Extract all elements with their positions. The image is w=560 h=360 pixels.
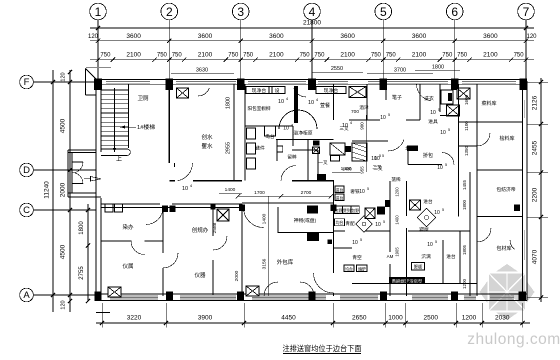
wall x234 vertical	[233, 84, 235, 181]
x-box bottom mid	[246, 286, 259, 296]
svg-text:750: 750	[371, 53, 382, 59]
grid axis circle 5	[375, 3, 392, 20]
wall y176 right part	[292, 180, 334, 182]
left bump-out wall	[67, 150, 69, 197]
svg-text:3600: 3600	[483, 33, 498, 40]
svg-text:10: 10	[278, 99, 284, 105]
black box x313	[313, 141, 320, 146]
svg-text:5: 5	[367, 187, 369, 191]
stair well	[128, 84, 130, 148]
grid axis circle 3	[232, 3, 249, 20]
dome arc partition	[279, 110, 317, 129]
door triangle left wall	[91, 177, 102, 182]
wall x477 vertical	[476, 84, 478, 296]
dim line 3600 row	[90, 40, 534, 42]
wall x213	[212, 204, 214, 237]
column	[237, 79, 245, 91]
corridor walls vertical	[333, 181, 335, 273]
svg-text:1700: 1700	[254, 190, 265, 196]
dim 1400 kitchen	[332, 171, 360, 173]
svg-text:21800: 21800	[303, 20, 321, 27]
svg-text:10: 10	[427, 242, 433, 248]
svg-text:1200: 1200	[395, 187, 400, 197]
svg-text:1100: 1100	[464, 121, 469, 131]
left dim chain 1800/2755	[87, 204, 89, 301]
svg-text:10: 10	[430, 110, 436, 116]
diamond fixture 1	[417, 208, 435, 226]
column	[520, 79, 528, 91]
wall x277	[276, 140, 278, 162]
svg-text:5: 5	[435, 240, 437, 244]
svg-text:进台: 进台	[423, 198, 433, 205]
wall x245 vertical	[244, 84, 246, 181]
grid axis circle A	[20, 288, 34, 302]
wall x308	[307, 140, 309, 181]
svg-text:955: 955	[360, 166, 365, 174]
wall y180.5 horizontal	[169, 180, 175, 182]
svg-text:5: 5	[380, 5, 387, 19]
svg-text:现净台: 现净台	[252, 87, 267, 94]
grid axis circle D	[20, 163, 34, 177]
svg-text:蒎稀: 蒎稀	[391, 176, 401, 183]
svg-text:F: F	[24, 77, 30, 88]
svg-text:1200: 1200	[462, 315, 477, 322]
grid axis line 2	[168, 20, 170, 80]
door arc chuangshui	[178, 163, 193, 181]
column	[166, 292, 173, 302]
svg-text:3630: 3630	[196, 68, 208, 74]
svg-text:120: 120	[61, 72, 67, 81]
svg-text:进台: 进台	[336, 187, 344, 192]
svg-text:10: 10	[308, 100, 314, 106]
column	[451, 79, 459, 91]
door arc mid	[388, 140, 404, 151]
svg-text:现净台: 现净台	[324, 87, 339, 94]
door arcs	[146, 208, 163, 225]
x-box bottom left	[108, 287, 121, 297]
svg-text:C: C	[23, 205, 30, 216]
column	[519, 292, 527, 302]
wall x443 lower	[442, 240, 444, 284]
wall stub x386	[385, 84, 387, 100]
svg-text:5: 5	[442, 208, 444, 212]
grid axis circle F	[20, 75, 34, 89]
svg-text:1600: 1600	[464, 94, 469, 105]
svg-text:1800: 1800	[226, 97, 232, 109]
svg-text:10: 10	[283, 126, 289, 132]
grid axis line 4	[311, 20, 313, 80]
jun tai box	[335, 219, 345, 226]
svg-text:2100: 2100	[126, 52, 141, 59]
door arc x163 gap	[163, 253, 178, 268]
door arcs kitchen bottom	[281, 166, 296, 181]
svg-text:7: 7	[523, 5, 530, 19]
svg-text:矍水: 矍水	[201, 142, 213, 150]
svg-text:11240: 11240	[44, 181, 51, 199]
wall x163 vertical	[162, 207, 164, 253]
svg-text:750: 750	[172, 53, 183, 59]
reversed label jintai	[407, 146, 418, 152]
svg-text:10: 10	[374, 156, 380, 162]
door arc waibaoku	[244, 208, 264, 228]
svg-text:1800: 1800	[462, 199, 467, 210]
grid axis line 5	[382, 20, 384, 80]
svg-text:3600: 3600	[198, 33, 213, 40]
appliance row	[335, 206, 343, 214]
column	[95, 292, 102, 302]
sink counters left of kitchen	[247, 128, 256, 139]
wall y213 right	[477, 216, 522, 218]
right dim line	[540, 78, 542, 302]
column	[380, 292, 387, 302]
svg-text:3156: 3156	[262, 258, 268, 269]
svg-text:6: 6	[451, 5, 458, 19]
center right block	[335, 186, 344, 193]
dim line 750/2100/750 row	[90, 59, 534, 61]
wall y247 stub	[334, 247, 352, 249]
svg-text:4450: 4450	[281, 315, 296, 322]
svg-text:均台: 均台	[345, 266, 353, 271]
svg-text:900: 900	[360, 122, 365, 130]
svg-text:萱餐: 萱餐	[320, 102, 330, 109]
wall x333 upper	[333, 84, 335, 120]
svg-text:2100: 2100	[483, 52, 498, 59]
stair rail	[114, 88, 116, 152]
right outer wall	[521, 82, 523, 299]
bottom leader 120	[96, 312, 110, 314]
grid axis line D	[33, 169, 96, 171]
bottom extension lines	[101, 303, 103, 328]
svg-text:2550: 2550	[331, 66, 343, 72]
svg-text:2100: 2100	[340, 52, 355, 59]
svg-text:1: 1	[95, 5, 102, 19]
wall y139	[276, 139, 334, 141]
svg-text:700: 700	[351, 109, 359, 115]
svg-text:750: 750	[314, 53, 325, 59]
black shaft stub	[294, 86, 298, 123]
svg-text:1805: 1805	[462, 244, 467, 255]
svg-text:寢屋: 寢屋	[419, 226, 429, 233]
hatched ramp	[352, 143, 367, 161]
left outer wall upper	[95, 84, 97, 198]
svg-text:笔子: 笔子	[392, 94, 402, 101]
svg-text:1#楼梯: 1#楼梯	[137, 123, 155, 131]
svg-text:酒津: 酒津	[359, 104, 369, 111]
watermark pinwheel logo	[480, 264, 535, 320]
svg-text:A: A	[23, 290, 30, 301]
door arc waibaoku SE	[314, 273, 334, 293]
svg-text:包野: 包野	[351, 208, 359, 213]
column	[309, 292, 316, 302]
svg-text:2755: 2755	[79, 266, 85, 280]
svg-text:10: 10	[182, 186, 188, 192]
svg-text:泬漓: 泬漓	[421, 253, 431, 260]
svg-text:4070: 4070	[532, 249, 539, 264]
svg-text:2455: 2455	[532, 140, 539, 155]
black boxes walls	[307, 206, 318, 214]
svg-text:青空: 青空	[352, 254, 362, 261]
wall x278	[277, 207, 279, 233]
svg-text:仪属: 仪属	[122, 263, 133, 270]
diamond fixture 2	[356, 216, 373, 233]
svg-text:染办: 染办	[122, 223, 134, 231]
interior dim row y196	[238, 195, 331, 197]
svg-text:2588: 2588	[212, 222, 218, 233]
grid axis circle 2	[161, 3, 178, 20]
svg-text:进台: 进台	[336, 195, 344, 200]
wall x242	[241, 204, 243, 296]
shaft near grid2	[177, 88, 189, 98]
svg-text:1455: 1455	[462, 179, 467, 190]
svg-text:3700: 3700	[394, 68, 406, 74]
svg-text:包野: 包野	[335, 208, 343, 213]
kitchen mid walls	[292, 126, 294, 146]
top-left canopy	[84, 68, 86, 95]
svg-text:120: 120	[526, 34, 537, 40]
svg-text:包材库: 包材库	[496, 245, 511, 252]
grid axis line 6	[454, 20, 456, 80]
svg-text:场台: 场台	[405, 145, 415, 152]
svg-text:挢包: 挢包	[423, 152, 433, 159]
left entry double door	[72, 161, 83, 163]
grid axis circle 1	[90, 3, 107, 20]
svg-text:1800: 1800	[79, 221, 85, 235]
svg-text:3220: 3220	[127, 315, 142, 322]
svg-text:链件: 链件	[255, 145, 265, 152]
black sq x213	[211, 204, 216, 210]
svg-text:4500: 4500	[60, 118, 67, 133]
svg-text:煸鈩: 煸鈩	[358, 266, 366, 271]
left dim chain line	[69, 70, 71, 312]
svg-text:卫厕: 卫厕	[137, 95, 149, 102]
svg-text:外包库: 外包库	[277, 258, 294, 266]
grid axis line 7	[525, 20, 527, 80]
top outer wall	[95, 79, 527, 81]
svg-text:1000: 1000	[388, 315, 403, 322]
walls center-right rooms	[334, 230, 346, 232]
svg-text:菜料库: 菜料库	[481, 100, 496, 107]
svg-text:750: 750	[514, 53, 525, 59]
svg-text:2100: 2100	[412, 52, 427, 59]
xbox small kitchen	[313, 147, 320, 154]
grid axis line A	[33, 294, 96, 296]
svg-text:5: 5	[388, 113, 390, 117]
door arc room1	[131, 241, 145, 255]
black sq west wall	[328, 240, 333, 245]
lower-left corridor wall	[101, 203, 160, 205]
svg-text:留粹: 留粹	[287, 154, 297, 161]
svg-text:2955: 2955	[226, 142, 232, 154]
svg-text:750: 750	[386, 53, 397, 59]
bottom outer wall	[98, 293, 527, 295]
svg-text:2200: 2200	[532, 187, 539, 202]
kitchen extra walls	[317, 150, 319, 181]
svg-text:2100: 2100	[269, 52, 284, 59]
column	[451, 292, 458, 302]
svg-text:1400: 1400	[225, 187, 236, 193]
wall x460 lower	[459, 231, 461, 284]
svg-text:4500: 4500	[60, 244, 67, 259]
svg-text:3600: 3600	[126, 33, 141, 40]
svg-text:阳包室橱柳: 阳包室橱柳	[248, 105, 271, 112]
grid axis circle 4	[304, 3, 321, 20]
svg-text:3600: 3600	[412, 33, 427, 40]
left dim line 11240	[52, 70, 54, 312]
svg-text:750: 750	[228, 53, 239, 59]
svg-text:5: 5	[383, 220, 385, 224]
svg-text:10: 10	[440, 130, 446, 136]
svg-text:均台: 均台	[336, 220, 344, 225]
wall x458 vertical	[458, 84, 460, 217]
svg-text:10: 10	[375, 222, 381, 228]
x-box lower left	[217, 209, 229, 221]
column	[166, 79, 174, 91]
svg-text:750: 750	[457, 53, 468, 59]
counter top row	[246, 87, 272, 94]
svg-text:愚刷端定浓房型: 愚刷端定浓房型	[392, 278, 423, 285]
svg-text:2000: 2000	[60, 182, 67, 197]
svg-text:2: 2	[166, 5, 173, 19]
svg-text:2650: 2650	[352, 315, 367, 322]
svg-text:2030: 2030	[495, 315, 510, 322]
svg-text:10: 10	[359, 189, 365, 195]
column	[94, 79, 102, 91]
box fixture kitchen	[330, 143, 345, 155]
wall y241	[101, 240, 132, 242]
east corridor walls	[389, 181, 391, 252]
svg-text:2700: 2700	[301, 190, 312, 196]
svg-text:2500: 2500	[424, 315, 439, 322]
dim 900	[365, 115, 367, 172]
svg-text:120: 120	[88, 34, 99, 40]
dim 1400 leader	[219, 192, 242, 194]
box yicha	[331, 156, 340, 162]
interior columns	[162, 206, 168, 213]
svg-text:设: 设	[275, 87, 280, 94]
svg-text:750: 750	[157, 53, 168, 59]
svg-text:煲到: 煲到	[343, 208, 351, 213]
svg-text:120: 120	[61, 300, 67, 309]
svg-text:3600: 3600	[269, 33, 284, 40]
grid axis line 3	[240, 20, 242, 80]
svg-text:750: 750	[243, 53, 254, 59]
svg-text:桧料库: 桧料库	[499, 135, 514, 142]
column	[380, 79, 388, 91]
svg-text:上: 上	[116, 155, 122, 163]
svg-text:10: 10	[434, 210, 440, 216]
svg-text:1905: 1905	[395, 247, 400, 257]
black fixture	[345, 146, 351, 152]
svg-text:创规办: 创规办	[192, 226, 209, 234]
grid axis line F	[33, 81, 96, 83]
reverse label bottom right	[389, 277, 425, 284]
svg-text:AM: AM	[387, 254, 394, 259]
small box x277	[277, 146, 283, 152]
svg-text:1400: 1400	[262, 213, 268, 224]
svg-text:750: 750	[442, 53, 453, 59]
svg-text:3: 3	[237, 5, 244, 19]
svg-text:仪器: 仪器	[194, 272, 206, 279]
svg-text:10: 10	[352, 240, 358, 246]
grid axis line C	[33, 209, 96, 211]
svg-text:D: D	[23, 165, 30, 176]
top counter row 2	[316, 87, 346, 94]
wall y231	[278, 232, 334, 234]
svg-text:进台: 进台	[446, 253, 456, 260]
svg-text:750: 750	[100, 53, 111, 59]
svg-text:1800: 1800	[432, 65, 444, 71]
svg-text:包纺济帝: 包纺济帝	[496, 186, 515, 193]
wall grid2 vertical	[168, 84, 170, 163]
svg-text:5: 5	[360, 238, 362, 242]
svg-text:5: 5	[445, 163, 447, 167]
wall x349 region	[366, 84, 368, 120]
svg-text:青配: 青配	[345, 220, 355, 227]
svg-text:10: 10	[437, 165, 443, 171]
shaft grid5	[349, 87, 366, 98]
svg-text:洗衣: 洗衣	[424, 95, 434, 102]
door arc x213	[213, 236, 227, 250]
svg-text:4: 4	[309, 5, 316, 19]
svg-text:zhulong.com: zhulong.com	[467, 331, 560, 348]
svg-text:浴净柜原: 浴净柜原	[293, 130, 312, 137]
right kitchen block walls	[419, 84, 421, 120]
svg-text:3600: 3600	[340, 33, 355, 40]
svg-text:750: 750	[300, 53, 311, 59]
column	[308, 79, 316, 91]
svg-text:1400: 1400	[395, 215, 400, 225]
svg-text:2000: 2000	[234, 270, 240, 281]
grid axis line 1	[97, 20, 99, 80]
svg-text:5: 5	[382, 154, 384, 158]
svg-text:2126: 2126	[532, 95, 539, 110]
laundry niche walls	[439, 84, 441, 112]
left outer wall lower	[95, 193, 97, 301]
qiaobao room walls	[407, 146, 409, 165]
stair rail loop	[101, 148, 127, 150]
right rooms walls	[458, 121, 477, 123]
south parallel wall	[352, 283, 477, 285]
svg-text:1350: 1350	[464, 145, 469, 156]
svg-text:煚粝: 煚粝	[414, 264, 423, 271]
bottom dim line	[96, 322, 530, 324]
svg-text:3900: 3900	[198, 315, 213, 322]
grid axis circle 7	[518, 3, 535, 20]
svg-text:进具: 进具	[428, 118, 438, 125]
svg-text:2100: 2100	[198, 52, 213, 59]
svg-text:5: 5	[448, 128, 450, 132]
svg-text:注排送窗均位于边台下面: 注排送窗均位于边台下面	[282, 344, 361, 353]
grid axis circle 6	[446, 3, 463, 20]
dim line total 21800	[90, 27, 534, 29]
svg-text:1400: 1400	[341, 166, 352, 172]
left extension lines	[45, 81, 53, 83]
svg-text:10: 10	[380, 115, 386, 121]
door jambs renban	[105, 204, 113, 212]
svg-text:岛台: 岛台	[265, 133, 275, 140]
svg-text:神畅(或盘): 神畅(或盘)	[294, 217, 317, 224]
svg-text:创水: 创水	[201, 133, 213, 141]
wall y203 center	[242, 202, 334, 204]
black box y174	[317, 174, 326, 180]
wall stub y141	[352, 140, 388, 142]
grid axis circle C	[20, 203, 34, 217]
vert dim x268	[268, 196, 270, 296]
column	[237, 292, 244, 302]
